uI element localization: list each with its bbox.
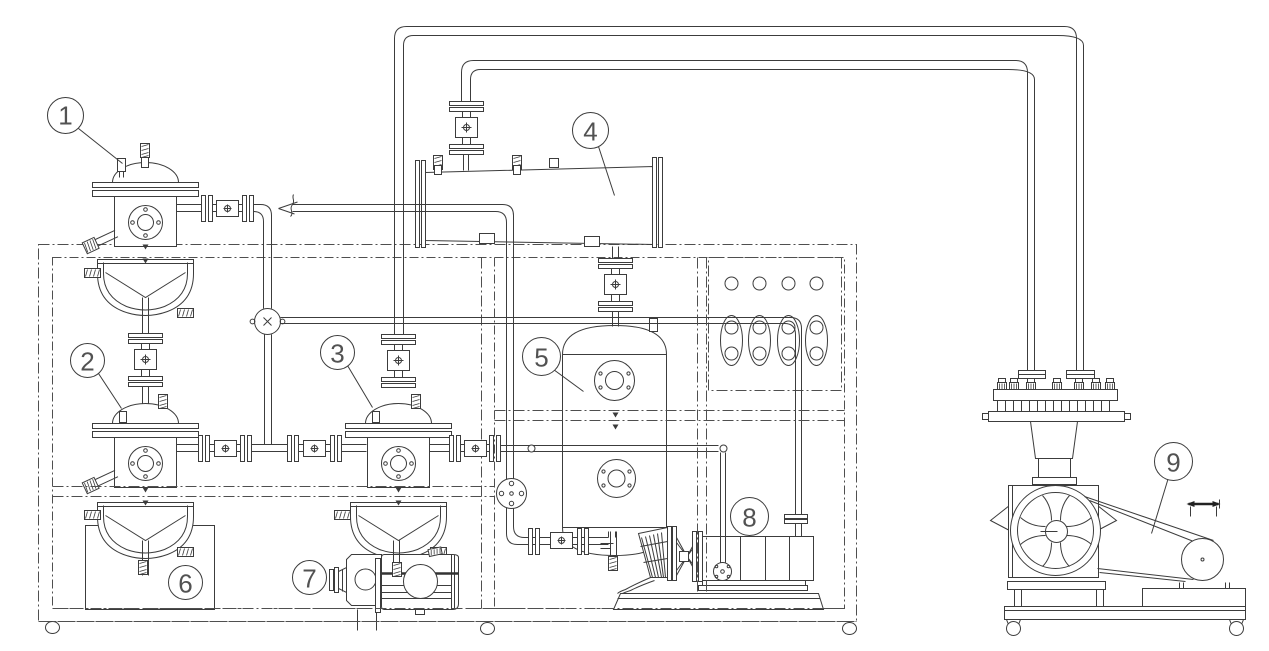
svg-text:3: 3	[330, 339, 344, 369]
svg-text:2: 2	[80, 347, 94, 377]
svg-text:5: 5	[534, 343, 548, 373]
svg-text:1: 1	[58, 101, 72, 131]
svg-text:6: 6	[178, 569, 192, 599]
svg-text:8: 8	[742, 503, 756, 533]
svg-text:4: 4	[583, 117, 597, 147]
svg-text:9: 9	[1166, 448, 1180, 478]
svg-text:7: 7	[302, 564, 316, 594]
